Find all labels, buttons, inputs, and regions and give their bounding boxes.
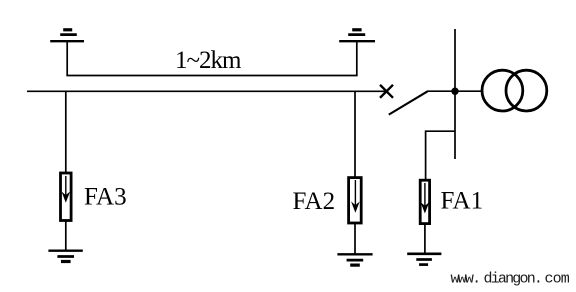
ground (FA3): [48, 251, 82, 262]
switch QS (open disconnector blade): [389, 91, 428, 114]
arrester FA1: [420, 180, 429, 223]
node X (line break mark): [380, 85, 393, 98]
ground (FA1): [407, 254, 441, 265]
transformer T1: [482, 70, 547, 111]
wire (incoming overhead line / bus): [27, 90, 387, 92]
svg-text:FA2: FA2: [293, 188, 336, 215]
ground E2 (overhead shield wire terminal, top right, inverted): [339, 30, 375, 41]
wire (FA1 tap: step from riser): [426, 131, 455, 179]
wire (E1 down-lead): [66, 41, 68, 75]
node A (bus junction dot): [451, 88, 458, 95]
svg-text:FA1: FA1: [441, 188, 484, 215]
wire (bus tap to FA2): [354, 91, 356, 177]
wire (FA2 to ground): [354, 223, 356, 254]
wire (switch to transformer): [427, 90, 482, 92]
svg-text:www.diangon.com: www.diangon.com: [451, 271, 570, 288]
arrester FA2: [349, 178, 362, 223]
arrester FA3: [61, 173, 72, 221]
svg-text:1~2km: 1~2km: [175, 47, 242, 74]
wire (overhead ground/shield wire span): [66, 75, 357, 77]
ground E1 (overhead shield wire terminal, top left, inverted): [50, 30, 84, 41]
wire (E2 down-lead): [356, 41, 358, 75]
wire (bus tap to FA3): [65, 91, 67, 172]
svg-text:FA3: FA3: [84, 184, 127, 211]
wire (vertical riser through node A): [454, 29, 456, 159]
wire (FA1 to ground): [424, 225, 426, 254]
ground (FA2): [337, 254, 372, 265]
wire (FA3 to ground): [65, 221, 67, 251]
